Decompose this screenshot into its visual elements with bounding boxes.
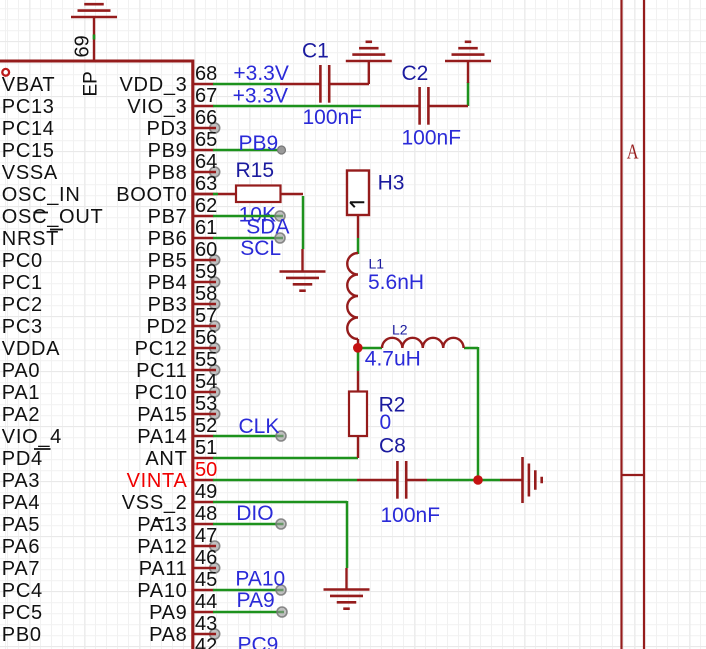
pin 43 PA8 <box>2 613 220 646</box>
value 100nF of C1 <box>303 106 363 129</box>
svg-text:44: 44 <box>195 591 217 613</box>
svg-text:PA10: PA10 <box>137 580 187 602</box>
net label PC9 <box>238 634 279 649</box>
svg-text:PB7: PB7 <box>148 206 188 228</box>
pin 66 PD3 <box>2 107 220 140</box>
pin 69 EP stub <box>93 17 95 61</box>
net label CLK <box>239 415 280 438</box>
svg-text:61: 61 <box>195 217 217 239</box>
pin 50 VINTA <box>2 459 217 492</box>
net label DIO <box>236 502 273 525</box>
svg-text:PA8: PA8 <box>149 624 187 646</box>
label L1 <box>369 256 385 272</box>
svg-text:VSS_2: VSS_2 <box>122 492 188 514</box>
label C1 <box>302 40 329 63</box>
wire +3.3V pin 68 to C1 <box>213 83 280 86</box>
net label PA9 <box>237 589 275 612</box>
svg-text:NRST: NRST <box>2 228 59 250</box>
svg-text:PC12: PC12 <box>135 338 188 360</box>
svg-text:VIO_4: VIO_4 <box>2 426 62 448</box>
svg-text:L1: L1 <box>369 256 385 272</box>
svg-text:PA15: PA15 <box>137 404 187 426</box>
svg-text:PC0: PC0 <box>2 250 43 272</box>
wire PB9 pin 65 <box>213 146 286 154</box>
svg-text:42: 42 <box>195 635 217 649</box>
label R2 <box>379 393 406 416</box>
pin 63 BOOT0 <box>2 173 217 206</box>
svg-text:64: 64 <box>195 151 217 173</box>
svg-text:VINTA: VINTA <box>127 470 188 492</box>
svg-text:PD2: PD2 <box>146 316 187 338</box>
svg-text:PA11: PA11 <box>139 558 188 580</box>
wire SDA pin 61 <box>213 233 285 243</box>
svg-text:PB6: PB6 <box>148 228 188 250</box>
label L2 <box>392 322 408 338</box>
pin 44 PA9 <box>2 591 217 624</box>
svg-text:PA12: PA12 <box>137 536 187 558</box>
svg-text:+3.3V: +3.3V <box>233 62 288 85</box>
ground GND at pin 69 <box>71 0 117 17</box>
wire PA9 pin 44 <box>213 607 287 617</box>
pin 67 VIO_3 <box>2 85 217 118</box>
value 0 of R2 <box>380 411 392 434</box>
pin 59 PB4 <box>2 261 220 294</box>
pin 65 PB9 <box>2 129 217 162</box>
svg-text:PB9: PB9 <box>239 132 279 155</box>
svg-text:49: 49 <box>195 481 217 503</box>
svg-text:68: 68 <box>195 63 217 85</box>
wire ANT pin 51 <box>213 457 358 460</box>
svg-text:PC4: PC4 <box>2 580 43 602</box>
pin number 1 of H3 (rotated) <box>350 202 364 207</box>
overline PD4 <box>34 448 51 450</box>
capacitor C2 <box>380 87 468 125</box>
capacitor C8 <box>357 461 427 499</box>
svg-text:PA6: PA6 <box>2 536 40 558</box>
svg-text:56: 56 <box>195 327 217 349</box>
svg-text:PC14: PC14 <box>2 118 55 140</box>
svg-text:43: 43 <box>195 613 217 635</box>
net label PA10 <box>235 568 285 591</box>
svg-text:A: A <box>627 140 639 164</box>
svg-text:65: 65 <box>195 129 217 151</box>
svg-text:66: 66 <box>195 107 217 129</box>
value 5.6nH of L1 <box>368 271 424 294</box>
svg-text:0: 0 <box>380 411 392 434</box>
svg-text:5.6nH: 5.6nH <box>368 271 424 294</box>
svg-text:PA1: PA1 <box>2 382 40 404</box>
svg-text:L2: L2 <box>392 322 408 338</box>
ground GND below VSS_2 wire <box>324 568 370 609</box>
svg-text:53: 53 <box>195 393 217 415</box>
pin 57 PD2 <box>2 305 220 338</box>
svg-text:VSSA: VSSA <box>2 162 58 184</box>
junction at C8/ground node <box>473 475 483 485</box>
svg-text:PD4: PD4 <box>2 448 43 470</box>
net label SDA <box>246 215 289 238</box>
svg-text:PA14: PA14 <box>137 426 187 448</box>
inductor L1 <box>347 253 358 348</box>
net label +3.3V (pin 67) <box>233 84 288 107</box>
svg-text:4.7uH: 4.7uH <box>365 348 421 371</box>
pin 47 PA12 <box>2 525 220 558</box>
pin 64 PB8 <box>2 151 220 184</box>
pin dot marker near VBAT <box>2 69 9 76</box>
svg-text:52: 52 <box>195 415 217 437</box>
value 4.7uH of L2 <box>365 348 421 371</box>
wire junction to ground <box>478 479 500 482</box>
svg-text:EP: EP <box>81 71 102 96</box>
svg-text:C1: C1 <box>302 40 329 63</box>
svg-text:ANT: ANT <box>145 448 187 470</box>
capacitor C1 <box>280 65 369 103</box>
pin 42 <box>193 635 217 649</box>
svg-text:58: 58 <box>195 283 217 305</box>
svg-text:PC15: PC15 <box>2 140 55 162</box>
value 100nF of C8 <box>381 504 441 527</box>
svg-text:100nF: 100nF <box>381 504 441 527</box>
svg-text:PA9: PA9 <box>237 589 275 612</box>
inductor L2 <box>382 338 464 348</box>
label C8 <box>379 434 406 457</box>
svg-text:DIO: DIO <box>236 502 273 525</box>
wire R15 right to ground <box>302 196 305 249</box>
svg-text:CLK: CLK <box>239 415 280 438</box>
pin 58 PB3 <box>2 283 220 316</box>
junction at L1/L2/R2 node <box>353 343 363 353</box>
pin 56 PC12 <box>2 327 220 360</box>
svg-text:OSC_IN: OSC_IN <box>2 184 81 206</box>
IC U1 body (partially off-canvas left) <box>0 60 193 649</box>
svg-text:PA5: PA5 <box>2 514 40 536</box>
svg-text:R15: R15 <box>236 159 275 182</box>
svg-text:VBAT: VBAT <box>2 74 56 96</box>
svg-text:PA10: PA10 <box>235 568 285 591</box>
pin 51 ANT <box>2 437 217 470</box>
svg-text:PC1: PC1 <box>2 272 43 294</box>
svg-text:62: 62 <box>195 195 217 217</box>
value 100nF of C2 <box>402 127 462 150</box>
svg-text:54: 54 <box>195 371 217 393</box>
svg-text:PA9: PA9 <box>149 602 187 624</box>
pin 48 PA13 <box>2 503 217 536</box>
pin 60 PB5 <box>2 239 220 272</box>
svg-text:100nF: 100nF <box>402 127 462 150</box>
wire H3 to L1 <box>357 238 360 254</box>
svg-text:PA4: PA4 <box>2 492 40 514</box>
value 10K of R15 <box>239 203 276 226</box>
svg-text:BOOT0: BOOT0 <box>116 184 187 206</box>
resistor R15 <box>193 186 303 203</box>
svg-text:55: 55 <box>195 349 217 371</box>
wire VSS_2 pin 49 <box>213 501 347 568</box>
svg-text:57: 57 <box>195 305 217 327</box>
svg-text:PA7: PA7 <box>2 558 40 580</box>
svg-text:51: 51 <box>195 437 217 459</box>
label H3 <box>378 172 405 195</box>
header H3 <box>347 171 369 239</box>
pin name EP (rotated) <box>81 71 102 96</box>
pin 52 PA14 <box>2 415 217 448</box>
svg-text:H3: H3 <box>378 172 405 195</box>
ground GND right of C8 junction <box>500 457 542 503</box>
pin 46 PA11 <box>2 547 220 580</box>
pin 55 PC11 <box>2 349 220 382</box>
svg-text:SDA: SDA <box>246 215 289 238</box>
frame row label A <box>627 140 639 164</box>
wire junction to R2 <box>357 347 360 371</box>
svg-text:67: 67 <box>195 85 217 107</box>
svg-text:48: 48 <box>195 503 217 525</box>
svg-text:50: 50 <box>195 459 217 481</box>
ground GND above C1 <box>346 42 392 84</box>
wire PA10 pin 45 <box>213 585 286 595</box>
pin 45 PA10 <box>2 569 217 602</box>
svg-text:PC2: PC2 <box>2 294 43 316</box>
wire +3.3V pin 67 to C2 <box>213 105 380 108</box>
wire junction to L2 <box>358 347 382 350</box>
label R15 <box>236 159 275 182</box>
svg-text:VDDA: VDDA <box>2 338 60 360</box>
svg-text:45: 45 <box>195 569 217 591</box>
svg-text:PB9: PB9 <box>148 140 188 162</box>
wire L2 to C8 net <box>464 347 478 480</box>
pin 62 PB7 <box>2 195 217 228</box>
svg-text:VIO_3: VIO_3 <box>127 96 187 118</box>
pin 49 VSS_2 <box>2 481 217 514</box>
svg-text:C2: C2 <box>402 62 429 85</box>
svg-text:PB4: PB4 <box>148 272 188 294</box>
svg-text:46: 46 <box>195 547 217 569</box>
label C2 <box>402 62 429 85</box>
svg-text:PC11: PC11 <box>136 360 187 382</box>
svg-text:PA0: PA0 <box>2 360 40 382</box>
svg-text:PC13: PC13 <box>2 96 55 118</box>
pin number 69 (rotated) <box>72 35 94 57</box>
svg-text:PB5: PB5 <box>148 250 188 272</box>
svg-text:PB0: PB0 <box>2 624 42 646</box>
wire CLK pin 52 <box>213 431 286 441</box>
net label PB9 <box>239 132 279 155</box>
sheet frame border <box>622 0 645 649</box>
wire DIO pin 48 <box>213 519 286 529</box>
pin 54 PC10 <box>2 371 220 404</box>
svg-text:63: 63 <box>195 173 217 195</box>
wire VINTA pin 50 to C8 <box>213 479 357 482</box>
svg-text:PA2: PA2 <box>2 404 40 426</box>
ground GND above C2 <box>445 42 491 83</box>
svg-text:PC5: PC5 <box>2 602 43 624</box>
pin 61 PB6 <box>2 217 217 250</box>
svg-text:PB8: PB8 <box>148 162 188 184</box>
svg-text:VDD_3: VDD_3 <box>120 74 188 96</box>
svg-text:60: 60 <box>195 239 217 261</box>
svg-text:PC9: PC9 <box>238 634 279 649</box>
svg-text:+3.3V: +3.3V <box>233 84 288 107</box>
net label SCL <box>240 237 281 260</box>
svg-text:PC3: PC3 <box>2 316 43 338</box>
ground GND below R15 <box>280 249 326 291</box>
overline PA13 <box>154 519 165 521</box>
overline NRST <box>50 229 63 231</box>
wire C8 right to junction <box>427 479 479 482</box>
pin 68 VDD_3 <box>2 63 217 96</box>
pin 53 PA15 <box>2 393 220 426</box>
svg-text:PA3: PA3 <box>2 470 40 492</box>
svg-text:100nF: 100nF <box>303 106 363 129</box>
svg-text:PB3: PB3 <box>148 294 188 316</box>
svg-text:PC10: PC10 <box>135 382 188 404</box>
svg-text:47: 47 <box>195 525 217 547</box>
svg-text:C8: C8 <box>379 434 406 457</box>
svg-text:69: 69 <box>72 35 94 57</box>
svg-text:PA13: PA13 <box>137 514 187 536</box>
wire C2 right to ground <box>467 82 470 106</box>
overline OSC_OUT <box>34 212 49 214</box>
net label +3.3V (pin 68) <box>233 62 288 85</box>
svg-text:OSC_OUT: OSC_OUT <box>2 206 104 228</box>
svg-text:SCL: SCL <box>240 237 281 260</box>
wire pin 62 <box>213 211 285 221</box>
svg-text:59: 59 <box>195 261 217 283</box>
svg-text:PD3: PD3 <box>146 118 187 140</box>
resistor R2 <box>349 371 367 458</box>
